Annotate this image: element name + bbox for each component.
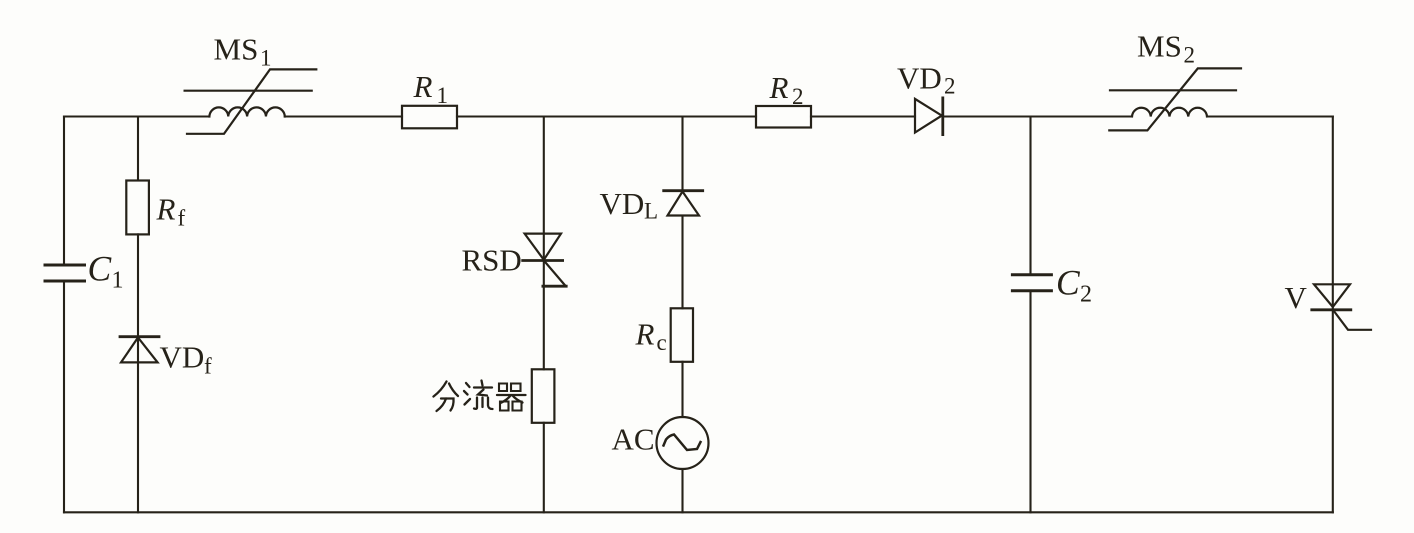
svg-text:RSD: RSD bbox=[462, 243, 522, 278]
inductor MS1 bbox=[185, 69, 317, 133]
thyristor RSD bbox=[523, 234, 567, 287]
resistor R2 bbox=[756, 106, 811, 128]
label R2 bbox=[769, 70, 804, 109]
svg-text:C: C bbox=[1056, 263, 1080, 303]
diode VDf bbox=[120, 337, 159, 363]
器 bbox=[499, 384, 507, 392]
diode VD2 bbox=[915, 98, 943, 135]
wire left rail upper bbox=[63, 117, 65, 266]
label 分流器 (hand-drawn glyphs) bbox=[434, 381, 526, 412]
inductor MS2 bbox=[1109, 68, 1241, 130]
wire shunt box to bottom rail bbox=[543, 423, 545, 513]
resistor R1 bbox=[402, 106, 457, 129]
svg-text:2: 2 bbox=[792, 84, 804, 109]
wire left rail lower bbox=[63, 281, 65, 512]
label Rf bbox=[156, 192, 186, 231]
wire right rail bbox=[1332, 117, 1334, 513]
label VDL bbox=[600, 186, 659, 224]
wire C2 branch top bbox=[1029, 117, 1031, 275]
shunt box 分流器 bbox=[532, 369, 555, 423]
wire VDL to Rc bbox=[681, 216, 683, 309]
svg-text:f: f bbox=[204, 354, 212, 379]
svg-text:VD: VD bbox=[160, 340, 205, 375]
svg-text:f: f bbox=[178, 206, 186, 231]
wire VDf to bottom rail bbox=[137, 362, 139, 512]
svg-text:R: R bbox=[156, 192, 176, 227]
svg-text:R: R bbox=[413, 69, 433, 104]
wire top rail VD2 to MS2 bbox=[943, 115, 1132, 117]
wire top rail MS1 to R1 bbox=[285, 115, 402, 117]
label MS2 bbox=[1137, 29, 1195, 68]
svg-text:2: 2 bbox=[1184, 43, 1196, 68]
wire bottom rail bbox=[64, 511, 1333, 513]
wire top rail left segment bbox=[64, 115, 209, 117]
resistor Rf bbox=[126, 181, 149, 235]
流 bbox=[466, 383, 470, 387]
label C2 bbox=[1056, 263, 1092, 308]
svg-text:AC: AC bbox=[612, 422, 655, 457]
svg-text:VD: VD bbox=[600, 186, 645, 221]
label R1 bbox=[413, 69, 449, 108]
svg-text:R: R bbox=[635, 317, 655, 352]
label MS1 bbox=[214, 32, 272, 71]
wire RSD branch top bbox=[543, 117, 545, 370]
label VDf bbox=[160, 340, 213, 379]
source AC bbox=[657, 417, 709, 469]
wire AC source to bottom rail bbox=[681, 469, 683, 512]
resistor Rc bbox=[671, 308, 693, 362]
svg-text:1: 1 bbox=[260, 46, 272, 71]
svg-text:MS: MS bbox=[214, 32, 259, 67]
svg-text:R: R bbox=[769, 70, 789, 105]
thyristor V bbox=[1312, 284, 1371, 330]
wire top rail MS2 to right corner bbox=[1207, 115, 1333, 117]
svg-text:C: C bbox=[88, 249, 112, 289]
label AC bbox=[612, 422, 655, 457]
wire Rf to VDf bbox=[137, 234, 139, 362]
diode VDL bbox=[664, 191, 703, 216]
label Rc bbox=[635, 317, 667, 356]
svg-text:MS: MS bbox=[1137, 29, 1182, 64]
svg-text:2: 2 bbox=[1080, 282, 1092, 308]
分 bbox=[434, 382, 447, 397]
svg-text:2: 2 bbox=[944, 74, 956, 99]
label V bbox=[1285, 280, 1308, 315]
wire top rail R2 to VD2 bbox=[811, 115, 915, 117]
svg-text:c: c bbox=[657, 330, 667, 355]
svg-text:1: 1 bbox=[112, 268, 124, 294]
svg-text:L: L bbox=[644, 199, 658, 224]
label RSD bbox=[462, 243, 522, 278]
wire AC branch top bbox=[681, 117, 683, 191]
svg-text:V: V bbox=[1285, 280, 1308, 315]
wire C2 to bottom rail bbox=[1029, 291, 1031, 513]
svg-text:VD: VD bbox=[897, 61, 942, 96]
label VD2 bbox=[897, 61, 956, 99]
capacitor C2 bbox=[1012, 275, 1051, 291]
wire Rc to AC source bbox=[681, 362, 683, 417]
capacitor C1 bbox=[45, 265, 85, 281]
wire Rf branch top bbox=[137, 117, 139, 181]
svg-text:1: 1 bbox=[437, 83, 449, 108]
label C1 bbox=[88, 249, 124, 294]
wire top rail R1 to R2 bbox=[457, 115, 756, 117]
